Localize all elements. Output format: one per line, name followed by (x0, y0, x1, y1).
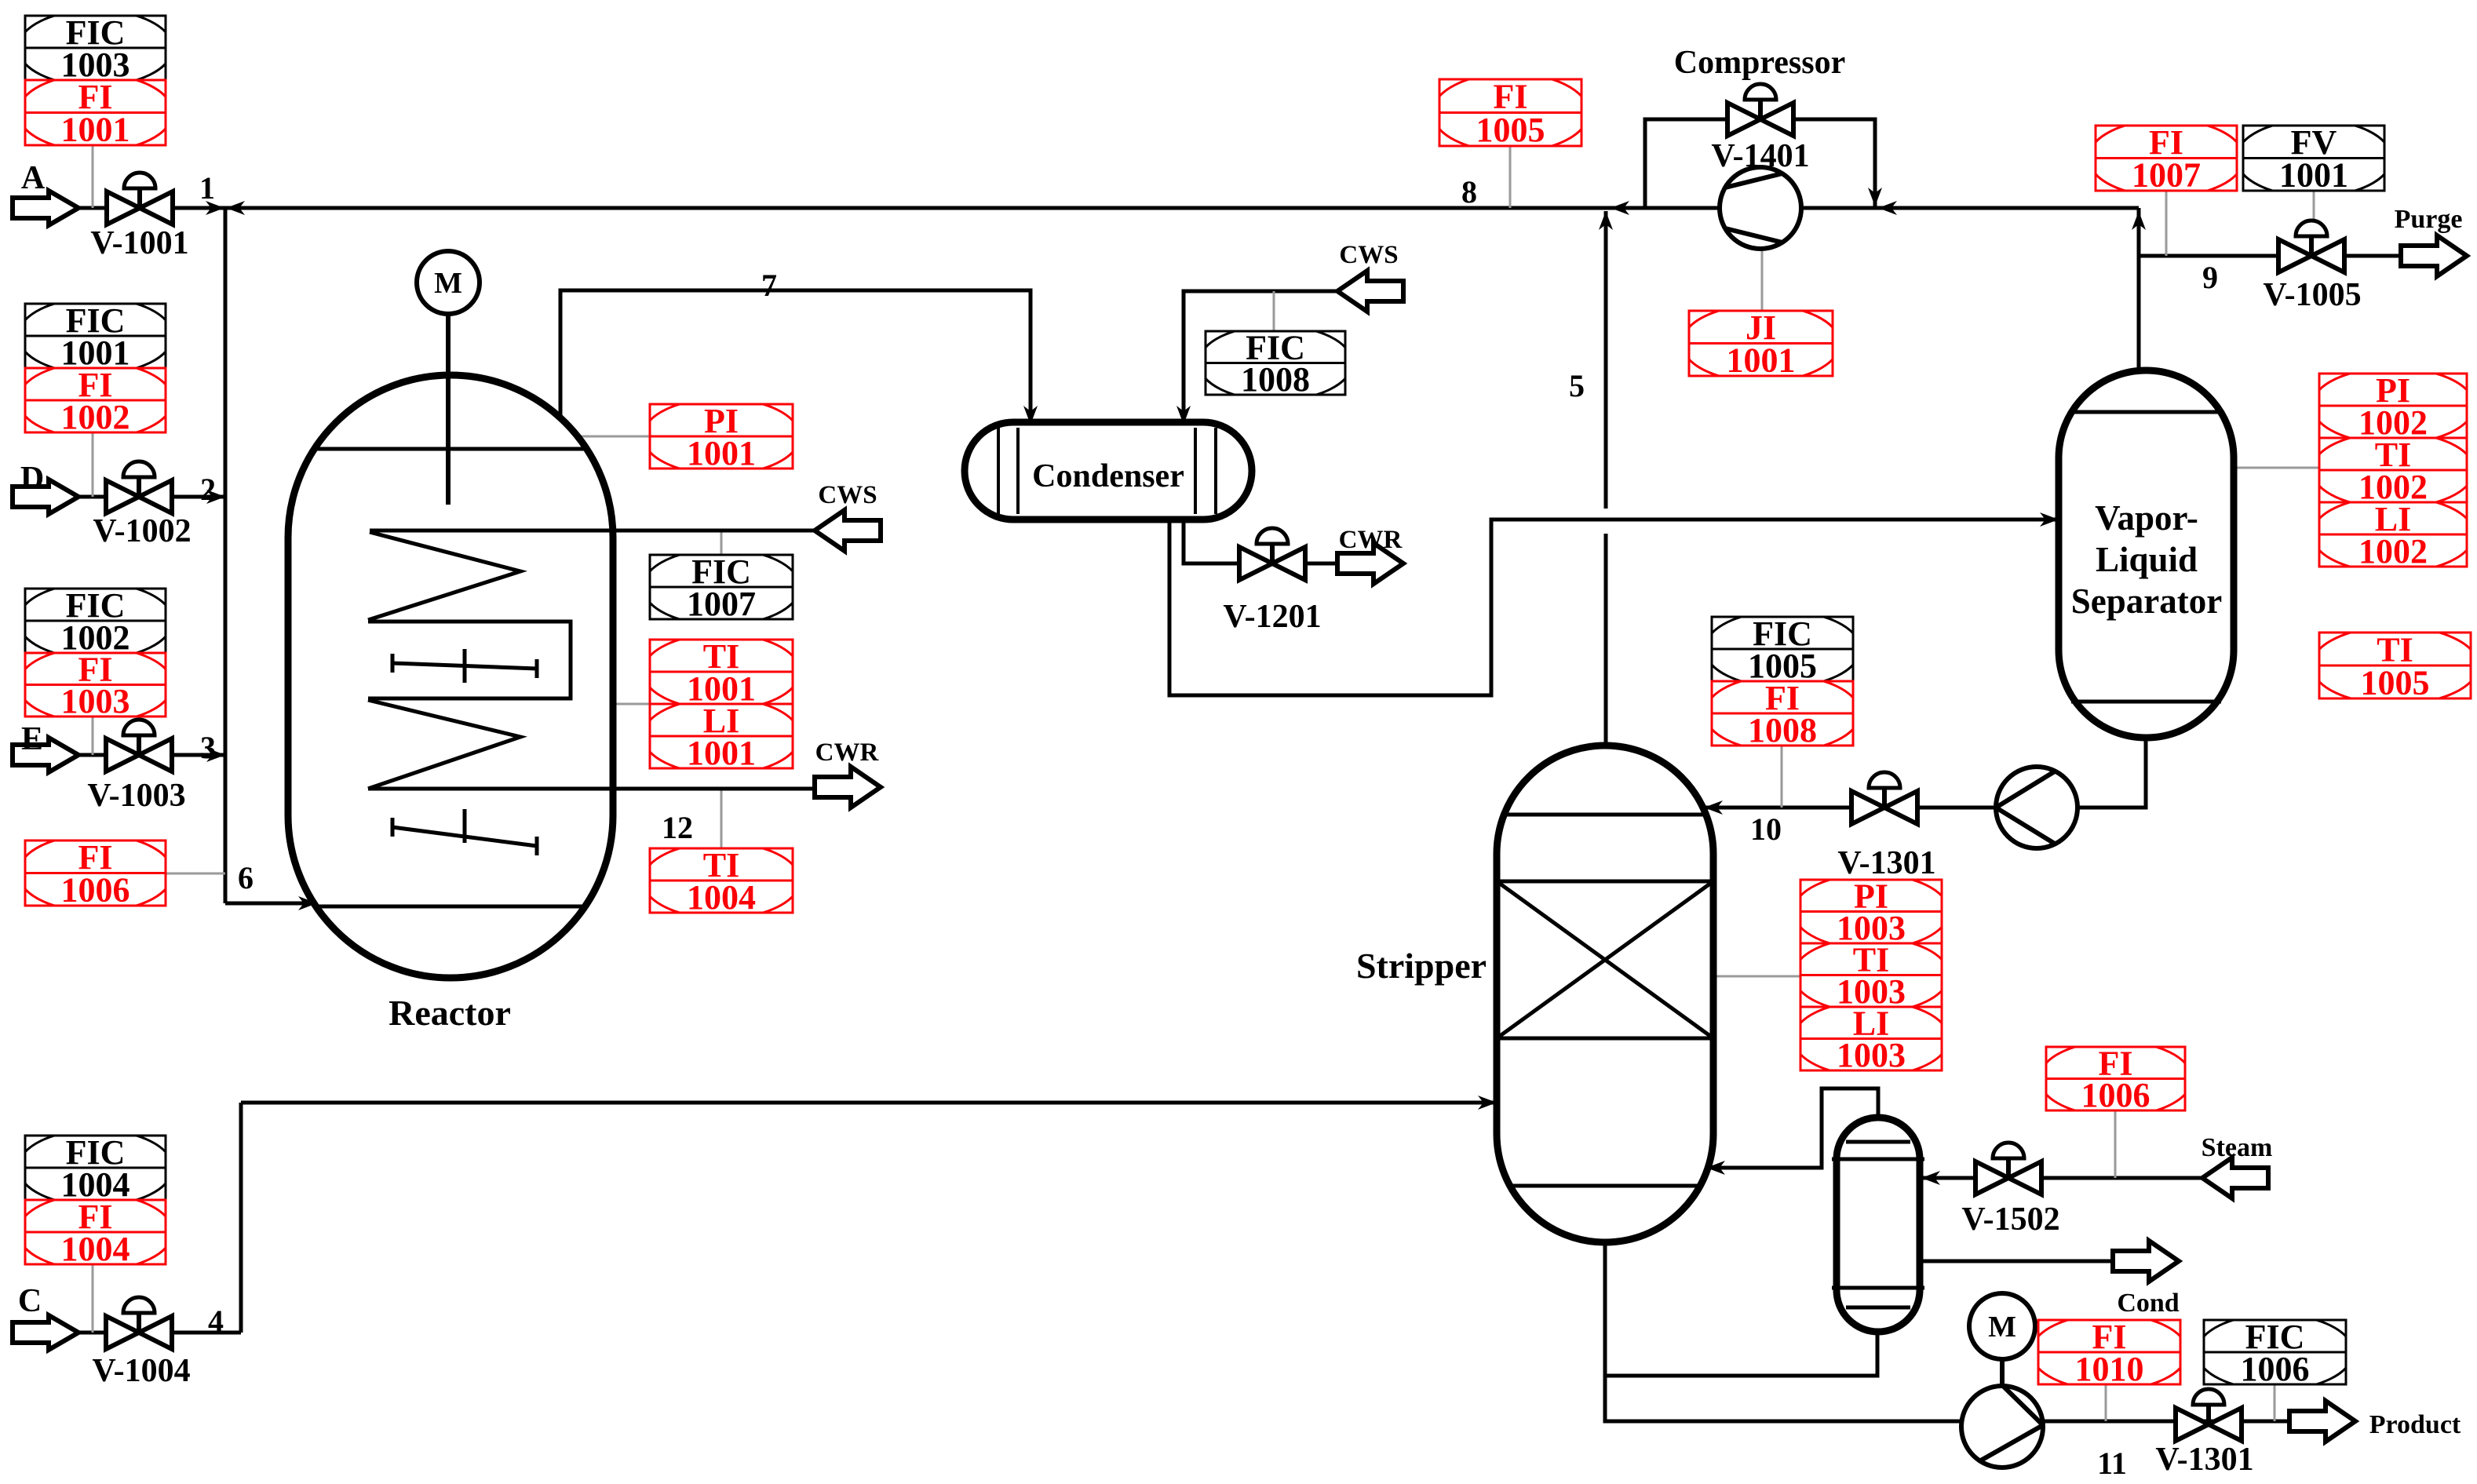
leader JI1001 to compressor (1761, 248, 1764, 311)
svg-text:1008: 1008 (1241, 360, 1310, 399)
svg-text:Condenser: Condenser (1032, 458, 1184, 494)
arrowhead stream 6 into reactor (298, 896, 317, 910)
reactor agitator motor M (417, 251, 480, 314)
reactor cooling coil lower zigzag (368, 700, 520, 789)
svg-text:10: 10 (1750, 811, 1782, 847)
svg-text:V-1003: V-1003 (87, 778, 185, 814)
leader TI1004 to CWR line 12 (720, 789, 723, 848)
wire D feed line 2 (78, 495, 225, 499)
leader TI1001/LI1001 to reactor (613, 703, 650, 706)
reboiler vessel (1837, 1118, 1920, 1332)
leader FI1002 to line 2 (92, 432, 94, 497)
instrument LI 1001 (643, 698, 800, 775)
reactor coil middle passes (368, 622, 571, 698)
svg-text:1001: 1001 (687, 734, 756, 772)
leader PI1002 stack to separator (2234, 467, 2319, 469)
reactor cooling coil bottom pass / CWR line 12 (368, 787, 813, 791)
leader FIC1008 to condenser CWS (1273, 291, 1275, 331)
valve V-1502 steam (1961, 1143, 2059, 1238)
svg-text:CWR: CWR (1339, 526, 1403, 554)
valve V-1002 D feed (93, 461, 191, 549)
wire condenser process outlet to separator feed (1169, 520, 2059, 695)
svg-text:12: 12 (662, 810, 693, 845)
wire condenser CWS supply (1184, 291, 1337, 428)
leader FI1005 to line 8 (1509, 146, 1512, 208)
svg-text:1008: 1008 (1748, 711, 1817, 749)
product arrow (2289, 1401, 2355, 1442)
product pump motor M (1969, 1293, 2035, 1359)
svg-text:1001: 1001 (1727, 341, 1796, 380)
leader FV1001 to valve V-1005 (2313, 191, 2315, 226)
leader FI1010 to product line (2105, 1384, 2107, 1421)
reactor vessel (288, 375, 613, 978)
instrument FI 1006 reactor feed (18, 835, 173, 912)
arrowhead reboiler vapor into stripper (1706, 1161, 1725, 1175)
instrument PI 1001 (643, 399, 800, 475)
svg-text:8: 8 (1461, 174, 1477, 210)
reactor agitator lower paddle (392, 809, 537, 855)
reactor agitator upper paddle (392, 649, 537, 683)
condenser vessel (965, 422, 1252, 520)
separator bottom seam (2071, 700, 2221, 704)
wire E feed line 3 (78, 753, 225, 757)
instrument FI 1004 (18, 1194, 173, 1271)
svg-text:V-1301: V-1301 (1837, 845, 1935, 881)
instrument FI 1001 (18, 75, 173, 151)
svg-text:Product: Product (2369, 1410, 2461, 1439)
stripper packing top chord (1497, 880, 1713, 884)
arrowhead recycle into junction left (226, 201, 245, 215)
condenser CWS arrow (1337, 271, 1403, 312)
feed arrow D (13, 479, 78, 514)
arrowhead bypass down (1868, 188, 1882, 206)
svg-text:V-1301: V-1301 (2155, 1442, 2253, 1478)
svg-text:1005: 1005 (2361, 663, 2430, 702)
svg-text:1001: 1001 (61, 111, 130, 149)
svg-text:1002: 1002 (2358, 532, 2428, 571)
wire stream 5 stripper overhead riser lower (1604, 534, 1608, 746)
svg-text:1004: 1004 (61, 1230, 130, 1268)
leader FIC1007 to reactor CWS (720, 531, 723, 555)
valve V-1005 purge (2263, 221, 2361, 313)
svg-text:D: D (20, 461, 44, 497)
valve V-1301 separator underflow (1837, 772, 1935, 881)
instrument TI 1004 (643, 843, 800, 919)
valve V-1401 compressor bypass (1711, 84, 1809, 174)
svg-text:V-1002: V-1002 (93, 513, 191, 549)
instrument FI 1010 (2031, 1314, 2187, 1391)
arrowhead stream 2 into manifold (206, 490, 225, 504)
separator pump (1996, 767, 2078, 848)
reactor agitator shaft (446, 312, 451, 505)
wire C feed line 4 horizontal (78, 1331, 241, 1335)
svg-text:Vapor-: Vapor- (2095, 498, 2198, 538)
compressor (1720, 167, 1801, 249)
svg-text:1010: 1010 (2075, 1350, 2144, 1388)
leader FIC1006 to product line (2274, 1384, 2276, 1421)
arrowhead separator feed (2040, 512, 2059, 527)
instrument FIC 1003 (18, 10, 173, 86)
arrowhead steam into reboiler (1921, 1171, 1940, 1185)
svg-text:4: 4 (208, 1304, 224, 1339)
svg-text:1007: 1007 (687, 585, 756, 623)
svg-text:2: 2 (200, 472, 216, 507)
instrument FIC 1002 (18, 583, 173, 659)
valve V-1201 condenser CWR (1223, 528, 1321, 635)
product pump motor shaft (2000, 1359, 2005, 1386)
arrowhead recycle flow left at stream 5 junction (1611, 201, 1629, 215)
svg-text:1001: 1001 (687, 434, 756, 472)
wire steam supply to reboiler (1921, 1176, 2202, 1180)
reactor bottom head seam (316, 905, 585, 909)
wire stream 10 pump to stripper (1704, 806, 1997, 810)
instrument FIC 1005 (1705, 611, 1860, 687)
valve V-1001 A feed (90, 173, 188, 261)
svg-text:1005: 1005 (1476, 111, 1545, 149)
valve V-1004 C feed (92, 1297, 190, 1389)
condensate arrow (2113, 1241, 2179, 1282)
instrument LI 1002 (2312, 497, 2475, 573)
instrument FI 1002 (18, 363, 173, 439)
svg-text:1004: 1004 (687, 878, 756, 917)
instrument TI 1003 (1793, 938, 1949, 1013)
leader FI1004 to line 4 (92, 1264, 94, 1333)
svg-text:Stripper: Stripper (1356, 946, 1487, 986)
svg-text:M: M (434, 267, 462, 300)
svg-text:V-1401: V-1401 (1711, 138, 1809, 174)
vapor-liquid separator vessel (2059, 370, 2234, 738)
svg-text:Compressor: Compressor (1674, 45, 1846, 81)
svg-text:1003: 1003 (1837, 1036, 1906, 1074)
leader FI1007 to purge line (2165, 191, 2168, 256)
leader FI1006 to feed manifold (165, 873, 225, 875)
reactor top head seam (316, 447, 586, 451)
wire stream 11 product line (2043, 1420, 2290, 1424)
svg-text:Purge: Purge (2395, 205, 2463, 234)
wire C feed riser (239, 1103, 243, 1333)
svg-text:A: A (21, 160, 46, 196)
wire reboiler bottoms return (1605, 1332, 1877, 1376)
stripper bottom seam (1510, 1184, 1700, 1188)
leader FI1001 to valve V-1001 line (92, 145, 94, 208)
instrument PI 1002 (2312, 368, 2475, 444)
instrument FI 1008 (1705, 676, 1860, 752)
valve V-1301 product (2155, 1389, 2253, 1478)
instrument LI 1003 (1793, 1001, 1949, 1077)
purge arrow (2401, 235, 2467, 276)
feed arrow C (13, 1315, 78, 1350)
svg-text:CWR: CWR (815, 738, 880, 767)
svg-text:1006: 1006 (2241, 1350, 2310, 1388)
leader FI1006 to steam line (2114, 1110, 2117, 1178)
svg-text:3: 3 (200, 730, 216, 765)
svg-text:M: M (1988, 1311, 2016, 1344)
steam arrow (2202, 1158, 2268, 1198)
svg-text:CWS: CWS (818, 481, 877, 509)
svg-text:6: 6 (238, 860, 254, 895)
svg-text:CWS: CWS (1339, 241, 1398, 269)
reactor CWS arrow (815, 510, 881, 551)
reactor CWR arrow (815, 767, 881, 808)
instrument FIC 1008 (1198, 326, 1352, 401)
wire separator vapor riser (2137, 208, 2141, 370)
wire stream 4 to stripper (241, 1101, 1497, 1105)
wire stream 6 into reactor (225, 902, 317, 906)
arrowhead stream 1 junction right (206, 201, 224, 215)
feed arrow E (13, 738, 78, 772)
svg-text:V-1201: V-1201 (1223, 599, 1321, 635)
arrowhead stream 5 up into recycle (1599, 211, 1613, 230)
reactor cooling coil upper zigzag (368, 532, 520, 620)
svg-text:Separator: Separator (2071, 582, 2222, 621)
leader PI1003 stack to stripper (1713, 975, 1800, 978)
svg-text:Steam: Steam (2202, 1133, 2273, 1162)
wire compressor bypass (1645, 119, 1875, 208)
arrowhead stream 3 into manifold (206, 748, 225, 762)
feed arrow A (13, 191, 78, 225)
svg-text:1001: 1001 (2279, 156, 2348, 195)
reboiler top seams (1832, 1142, 1924, 1159)
wire stream 5 stripper overhead riser upper (1604, 211, 1608, 509)
instrument TI 1005 (2311, 626, 2477, 704)
instrument TI 1002 (2312, 432, 2475, 509)
instrument PI 1003 (1793, 874, 1949, 950)
svg-text:1: 1 (199, 170, 215, 206)
reboiler bottom seams (1832, 1288, 1924, 1307)
svg-text:11: 11 (2097, 1446, 2127, 1481)
product pump (1961, 1386, 2043, 1468)
instrument FI 1006 steam (2039, 1041, 2192, 1117)
leader FIC1005/FI1008 to line 10 (1781, 746, 1783, 808)
wire condenser CWR outlet (1184, 520, 1336, 563)
svg-text:C: C (18, 1283, 42, 1319)
svg-text:9: 9 (2202, 260, 2218, 295)
svg-text:V-1004: V-1004 (92, 1353, 190, 1389)
wire condensate outlet (1920, 1260, 2115, 1263)
stripper vessel (1497, 746, 1713, 1242)
instrument FV 1001 (2236, 120, 2391, 197)
svg-text:1006: 1006 (61, 871, 130, 910)
condenser CWR arrow (1337, 543, 1403, 584)
instrument FI 1003 (18, 647, 173, 723)
instrument FIC 1001 (18, 298, 173, 374)
svg-text:1002: 1002 (61, 398, 130, 436)
svg-text:Cond: Cond (2117, 1289, 2179, 1318)
condenser tube sheet lines (998, 428, 1216, 514)
svg-text:V-1001: V-1001 (90, 225, 188, 261)
arrowhead CWS into condenser (1176, 406, 1191, 425)
arrowhead stream 10 into stripper (1704, 800, 1723, 815)
arrowhead stream 7 into condenser (1023, 406, 1038, 425)
stripper packing X (1497, 881, 1713, 1038)
svg-text:5: 5 (1569, 368, 1585, 403)
instrument FIC 1007 (643, 549, 800, 625)
stripper top seam (1504, 813, 1706, 817)
instrument JI 1001 (1682, 305, 1840, 382)
instrument FIC 1006 (2197, 1314, 2353, 1391)
svg-text:V-1005: V-1005 (2263, 277, 2361, 313)
leader FI1003 to line 3 (92, 716, 94, 755)
svg-text:E: E (21, 721, 43, 757)
svg-text:1003: 1003 (61, 682, 130, 720)
stripper packing bottom chord (1497, 1037, 1713, 1041)
wire stream 7 reactor overhead (560, 290, 1031, 428)
instrument TI 1001 (643, 634, 800, 710)
wire stream 9 purge branch (2139, 254, 2400, 258)
svg-text:1007: 1007 (2132, 156, 2201, 195)
instrument FIC 1004 (18, 1130, 173, 1206)
svg-text:1006: 1006 (2081, 1076, 2151, 1114)
arrowhead flow left at bypass junction (1878, 201, 1897, 215)
separator top seam (2072, 410, 2220, 414)
wire separator bottoms to pump (2078, 738, 2146, 808)
svg-text:V-1502: V-1502 (1961, 1201, 2059, 1238)
svg-text:Reactor: Reactor (389, 993, 511, 1033)
wire main recycle header line 1/8 (A feed to purge riser) (78, 206, 2139, 210)
arrowhead separator vapor up (2132, 211, 2146, 230)
reactor cooling coil top pass / CWS line (370, 529, 815, 533)
svg-text:7: 7 (761, 268, 777, 303)
leader PI1001 to reactor (567, 436, 650, 438)
wire stripper bottoms (1605, 1242, 1962, 1421)
wire reboiler overhead to stripper (1706, 1088, 1878, 1168)
svg-text:Liquid: Liquid (2096, 540, 2198, 579)
valve V-1003 E feed (87, 720, 185, 814)
wire feed manifold vertical (junction 1 down to stream 6) (224, 208, 228, 903)
instrument FI 1005 (1432, 73, 1589, 151)
instrument FI 1007 (2088, 120, 2244, 197)
arrowhead stream 4 into stripper (1478, 1096, 1497, 1110)
